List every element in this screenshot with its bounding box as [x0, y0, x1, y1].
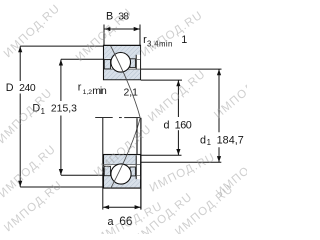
svg-text:184,7: 184,7	[217, 134, 244, 146]
svg-text:d: d	[164, 119, 170, 131]
svg-text:1: 1	[207, 138, 211, 147]
svg-text:ИМПОД.RU: ИМПОД.RU	[146, 68, 208, 124]
svg-text:160: 160	[175, 119, 192, 131]
svg-text:ИМПОД.RU: ИМПОД.RU	[139, 9, 205, 59]
svg-text:1,2: 1,2	[83, 89, 93, 96]
svg-text:1: 1	[181, 34, 187, 46]
svg-text:2,1: 2,1	[124, 87, 139, 98]
svg-text:240: 240	[19, 83, 36, 94]
svg-text:min: min	[92, 86, 107, 97]
svg-text:215,3: 215,3	[51, 103, 77, 114]
svg-text:ИМПОД.RU: ИМПОД.RU	[0, 87, 55, 146]
svg-text:D: D	[6, 82, 14, 94]
svg-text:ИМПОД.RU: ИМПОД.RU	[2, 2, 63, 60]
svg-text:ИМПОД.RU: ИМПОД.RU	[148, 151, 218, 194]
svg-text:r: r	[78, 81, 82, 93]
svg-text:d: d	[200, 134, 206, 146]
